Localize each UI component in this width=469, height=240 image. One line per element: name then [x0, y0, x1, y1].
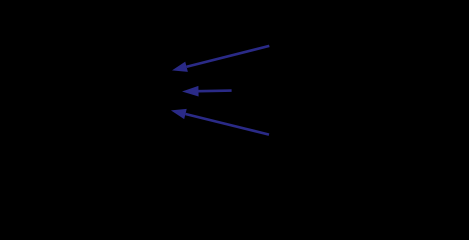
arrow top (pointing lower-left): [172, 46, 269, 72]
arrow bottom (pointing upper-left): [171, 109, 269, 135]
arrow middle (pointing left): [182, 86, 232, 97]
